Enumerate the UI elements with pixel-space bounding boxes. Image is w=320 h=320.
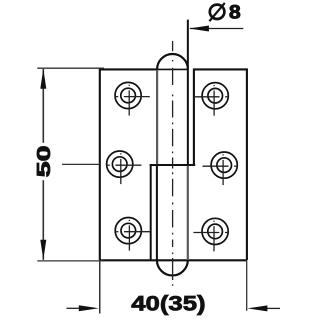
barrel junction line bbox=[150, 164, 196, 166]
barrel top edge line across (under arc) bbox=[157, 68, 188, 70]
dimension 40(35): left extension line bbox=[99, 261, 101, 314]
lower barrel right edge (hidden, gray) bbox=[187, 166, 189, 260]
junction extension line (left) bbox=[62, 163, 100, 165]
dimension 50: dimension line lower segment bbox=[42, 180, 44, 260]
arrowhead 50 top (pointing up) bbox=[40, 69, 46, 89]
svg-text:40(35): 40(35) bbox=[131, 292, 205, 316]
bottom edge line across both leaves and barrel bbox=[100, 259, 247, 261]
dimension 40(35): right extension line bbox=[246, 261, 248, 311]
arrowhead diameter-8 (pointing left) bbox=[189, 26, 209, 32]
screw hole top-right bbox=[202, 83, 228, 109]
upper barrel right edge + dimension extension up to leader bbox=[187, 20, 189, 165]
arrowhead 40(35) left (pointing right) bbox=[79, 305, 99, 311]
arrowhead 50 bottom (pointing down) bbox=[40, 240, 46, 260]
screw hole bottom-left bbox=[115, 218, 141, 244]
barrel centerline (dash-dot) bbox=[172, 41, 174, 286]
upper barrel left edge (hidden, gray) bbox=[156, 70, 158, 164]
label diameter 8: slash of diameter symbol bbox=[209, 3, 224, 21]
dimension 50: bottom extension line bbox=[37, 260, 104, 262]
screw hole middle-left bbox=[107, 151, 133, 177]
left leaf lower right edge bbox=[150, 165, 152, 260]
barrel top arc bbox=[157, 54, 188, 69]
screw hole bottom-right bbox=[202, 218, 228, 244]
dimension 50: dimension line upper segment bbox=[42, 69, 44, 143]
svg-text:8: 8 bbox=[229, 2, 241, 23]
dimension diameter 8: leader line bbox=[190, 28, 243, 30]
barrel bottom arc bbox=[157, 260, 188, 275]
dimension 50: top extension line bbox=[37, 67, 104, 69]
lower barrel left edge bbox=[156, 165, 158, 260]
right leaf bbox=[194, 69, 247, 260]
arrowhead 40(35) right (pointing left) bbox=[247, 305, 267, 311]
dimension 40(35): left arrow tail bbox=[67, 307, 81, 309]
screw hole middle-right bbox=[211, 152, 237, 178]
dimension 40(35): right arrow tail bbox=[266, 307, 280, 309]
svg-text:50: 50 bbox=[34, 146, 55, 178]
left leaf bbox=[100, 69, 157, 260]
screw hole top-left bbox=[115, 82, 141, 108]
label diameter 8: O of diameter symbol bbox=[210, 5, 225, 19]
